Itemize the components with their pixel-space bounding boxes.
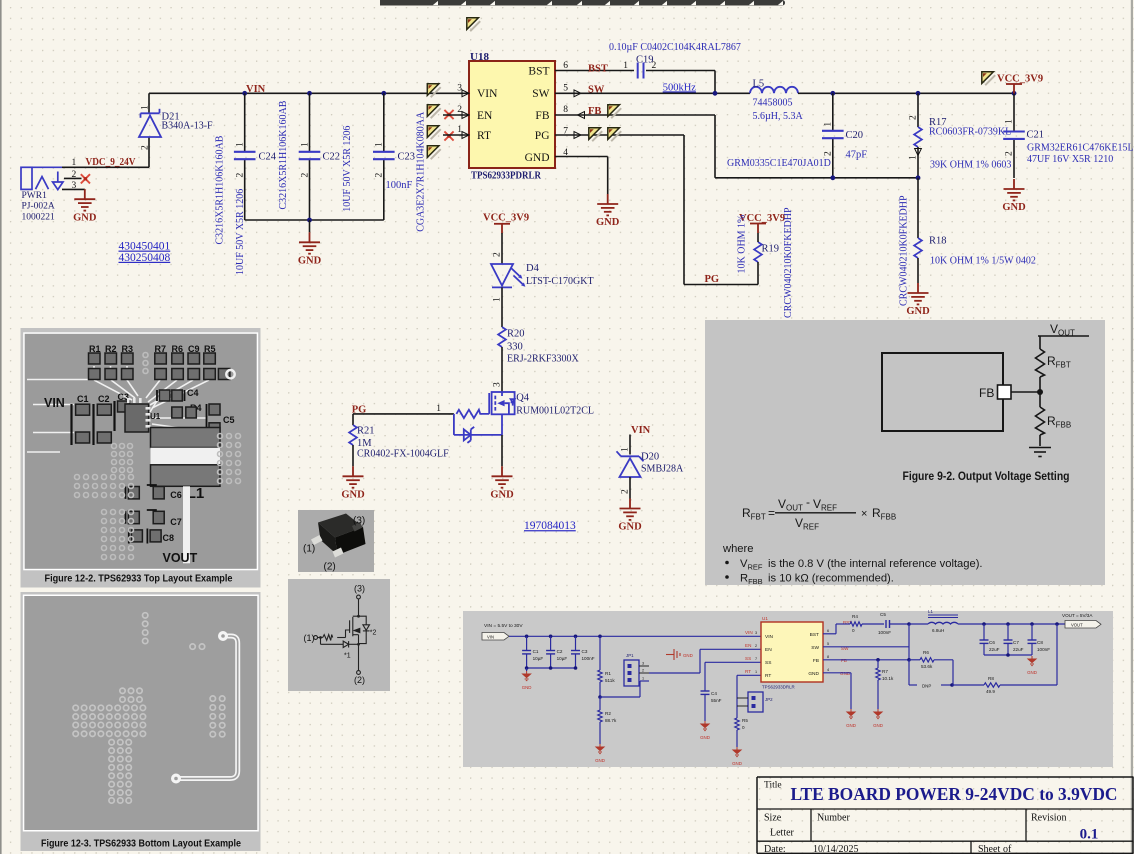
svg-text:C24: C24 bbox=[259, 151, 277, 162]
svg-text:RT: RT bbox=[745, 669, 751, 674]
svg-text:FB: FB bbox=[841, 658, 847, 663]
svg-text:0: 0 bbox=[852, 628, 855, 633]
svg-text:R1: R1 bbox=[605, 671, 611, 676]
svg-text:U1: U1 bbox=[150, 412, 161, 421]
svg-text:L1: L1 bbox=[928, 609, 933, 614]
svg-text:197084013: 197084013 bbox=[524, 520, 576, 532]
svg-text:VIN: VIN bbox=[631, 425, 651, 436]
svg-text:BST: BST bbox=[810, 632, 819, 638]
svg-text:(3): (3) bbox=[353, 516, 365, 527]
svg-text:Size: Size bbox=[764, 812, 782, 823]
svg-text:Number: Number bbox=[817, 812, 850, 823]
svg-text:Revision: Revision bbox=[1031, 812, 1067, 823]
svg-text:C1: C1 bbox=[77, 394, 89, 404]
svg-text:C21: C21 bbox=[1027, 129, 1045, 140]
svg-text:GND: GND bbox=[873, 723, 883, 728]
svg-text:BST: BST bbox=[528, 65, 549, 77]
svg-text:C7: C7 bbox=[170, 517, 182, 527]
svg-text:100nF: 100nF bbox=[878, 630, 891, 635]
svg-text:TPS62933PDRLR: TPS62933PDRLR bbox=[471, 171, 541, 182]
svg-text:Date:: Date: bbox=[764, 844, 786, 854]
svg-text:RC0603FR-0739KL: RC0603FR-0739KL bbox=[929, 127, 1011, 138]
svg-text:2: 2 bbox=[621, 489, 631, 494]
svg-text:RT: RT bbox=[477, 130, 491, 142]
svg-text:(2): (2) bbox=[324, 562, 336, 573]
svg-text:PJ-002A: PJ-002A bbox=[22, 202, 55, 212]
svg-text:VCC_3V9: VCC_3V9 bbox=[997, 74, 1043, 85]
svg-text:GND: GND bbox=[298, 256, 322, 267]
svg-text:2: 2 bbox=[642, 669, 644, 673]
svg-text:2: 2 bbox=[236, 173, 246, 178]
svg-text:TPS62933DRLR: TPS62933DRLR bbox=[762, 685, 795, 690]
svg-text:JP1: JP1 bbox=[626, 653, 634, 658]
svg-text:L5: L5 bbox=[753, 79, 765, 90]
svg-text:2: 2 bbox=[755, 644, 757, 648]
svg-text:*2: *2 bbox=[370, 630, 377, 637]
svg-text:GND: GND bbox=[1002, 202, 1026, 213]
svg-text:22uF: 22uF bbox=[989, 647, 1000, 652]
svg-text:GND: GND bbox=[1027, 670, 1037, 675]
svg-text:GND: GND bbox=[490, 490, 514, 501]
svg-text:SS: SS bbox=[745, 656, 751, 661]
svg-text:C19: C19 bbox=[636, 55, 654, 66]
svg-text:=: = bbox=[768, 506, 775, 520]
svg-text:Title: Title bbox=[764, 781, 782, 791]
svg-text:GND: GND bbox=[808, 671, 819, 677]
svg-text:PG: PG bbox=[705, 274, 720, 285]
svg-text:BST: BST bbox=[588, 63, 608, 74]
svg-text:6: 6 bbox=[563, 61, 568, 71]
svg-text:GND: GND bbox=[73, 212, 97, 223]
svg-text:VIN: VIN bbox=[765, 634, 774, 640]
svg-text:10UF 50V X5R 1206: 10UF 50V X5R 1206 bbox=[342, 126, 353, 212]
svg-text:VIN: VIN bbox=[487, 634, 494, 639]
svg-text:5: 5 bbox=[563, 84, 568, 94]
svg-text:GND: GND bbox=[341, 490, 365, 501]
svg-text:SMBJ28A: SMBJ28A bbox=[641, 463, 684, 474]
svg-text:GND: GND bbox=[595, 758, 605, 763]
svg-text:CRCW040210K0FKEDHP: CRCW040210K0FKEDHP bbox=[783, 207, 794, 318]
svg-text:2: 2 bbox=[72, 170, 77, 180]
svg-text:55nF: 55nF bbox=[711, 698, 722, 703]
svg-text:GND: GND bbox=[683, 653, 693, 658]
svg-text:0: 0 bbox=[742, 725, 745, 730]
svg-text:C22: C22 bbox=[323, 151, 341, 162]
svg-text:Letter: Letter bbox=[770, 828, 795, 839]
svg-text:3: 3 bbox=[493, 382, 503, 387]
svg-text:2: 2 bbox=[375, 173, 385, 178]
svg-text:3: 3 bbox=[72, 181, 77, 191]
svg-text:430250408: 430250408 bbox=[119, 252, 171, 264]
svg-text:FB: FB bbox=[588, 106, 601, 117]
svg-text:RT: RT bbox=[765, 673, 771, 679]
svg-text:330: 330 bbox=[507, 342, 523, 353]
svg-text:VCC_3V9: VCC_3V9 bbox=[483, 213, 529, 224]
svg-text:R21: R21 bbox=[357, 425, 375, 436]
svg-text:88.7k: 88.7k bbox=[605, 718, 617, 723]
svg-text:Figure 12-3. TPS62933 Bottom L: Figure 12-3. TPS62933 Bottom Layout Exam… bbox=[41, 839, 241, 850]
svg-text:VOUT: VOUT bbox=[1071, 622, 1083, 627]
svg-text:1000221: 1000221 bbox=[22, 212, 56, 222]
svg-text:VOUT = 5V/3A: VOUT = 5V/3A bbox=[1062, 613, 1093, 618]
svg-text:VOUT: VOUT bbox=[163, 551, 198, 565]
svg-text:R19: R19 bbox=[762, 243, 780, 254]
svg-text:×: × bbox=[861, 508, 867, 520]
svg-text:GND: GND bbox=[840, 671, 851, 676]
svg-text:1: 1 bbox=[72, 158, 77, 168]
svg-text:47pF: 47pF bbox=[846, 149, 868, 160]
svg-text:Figure 9-2. Output Voltage Set: Figure 9-2. Output Voltage Setting bbox=[903, 469, 1070, 483]
svg-text:D20: D20 bbox=[641, 451, 659, 462]
svg-text:1: 1 bbox=[642, 677, 644, 681]
svg-text:Sheet: Sheet bbox=[978, 844, 1000, 854]
svg-text:7: 7 bbox=[755, 657, 757, 661]
svg-text:R5: R5 bbox=[742, 718, 748, 723]
svg-text:C20: C20 bbox=[846, 130, 864, 141]
svg-text:Q4: Q4 bbox=[516, 392, 530, 403]
svg-text:where: where bbox=[722, 543, 753, 555]
svg-text:-: - bbox=[806, 495, 810, 509]
svg-text:430450401: 430450401 bbox=[119, 241, 171, 253]
svg-text:GRM32ER61C476KE15L: GRM32ER61C476KE15L bbox=[1027, 143, 1134, 154]
svg-text:100nF: 100nF bbox=[386, 180, 413, 191]
svg-text:R20: R20 bbox=[507, 328, 525, 339]
svg-text:EN: EN bbox=[745, 643, 751, 648]
svg-text:is 10 kΩ (recommended).: is 10 kΩ (recommended). bbox=[768, 573, 894, 585]
svg-text:2: 2 bbox=[824, 151, 834, 156]
svg-text:(1): (1) bbox=[304, 633, 315, 643]
svg-text:1: 1 bbox=[909, 155, 919, 160]
svg-text:R4: R4 bbox=[852, 614, 858, 619]
svg-text:CGA3E2X7R1H104K080AA: CGA3E2X7R1H104K080AA bbox=[415, 111, 426, 232]
svg-text:C3216X5R1H106K160AB: C3216X5R1H106K160AB bbox=[278, 100, 289, 209]
svg-text:U1: U1 bbox=[762, 616, 768, 621]
svg-text:LTE BOARD POWER 9-24VDC to 3.9: LTE BOARD POWER 9-24VDC to 3.9VDC bbox=[791, 784, 1118, 804]
svg-text:74458005: 74458005 bbox=[753, 98, 793, 109]
svg-text:GND: GND bbox=[522, 685, 532, 690]
svg-text:GND: GND bbox=[525, 152, 550, 164]
svg-text:39K OHM 1% 0603: 39K OHM 1% 0603 bbox=[930, 160, 1011, 171]
svg-text:4: 4 bbox=[827, 668, 829, 672]
svg-text:8: 8 bbox=[827, 655, 829, 659]
svg-text:2: 2 bbox=[909, 115, 919, 120]
svg-text:511k: 511k bbox=[605, 678, 615, 683]
svg-text:of: of bbox=[1003, 844, 1012, 854]
svg-text:C6: C6 bbox=[989, 640, 995, 645]
svg-text:100nF: 100nF bbox=[582, 656, 595, 661]
svg-text:LTST-C170GKT: LTST-C170GKT bbox=[526, 276, 594, 287]
svg-text:(2): (2) bbox=[354, 675, 365, 685]
svg-text:R6: R6 bbox=[923, 650, 929, 655]
svg-text:GND: GND bbox=[596, 217, 620, 228]
svg-text:100nF: 100nF bbox=[1037, 647, 1050, 652]
svg-text:*1: *1 bbox=[344, 653, 351, 660]
svg-text:VIN: VIN bbox=[44, 396, 65, 410]
svg-text:VIN: VIN bbox=[246, 84, 266, 95]
svg-text:1M: 1M bbox=[357, 438, 372, 449]
svg-text:is the 0.8 V (the internal ref: is the 0.8 V (the internal reference vol… bbox=[768, 558, 983, 570]
svg-text:53.6k: 53.6k bbox=[921, 664, 933, 669]
svg-text:C6: C6 bbox=[170, 490, 182, 500]
svg-text:R8: R8 bbox=[988, 676, 994, 681]
svg-text:Figure 12-2. TPS62933 Top Layo: Figure 12-2. TPS62933 Top Layout Example bbox=[45, 574, 233, 585]
svg-text:10UF 50V X5R 1206: 10UF 50V X5R 1206 bbox=[235, 189, 246, 275]
svg-text:5: 5 bbox=[827, 642, 829, 646]
svg-text:C23: C23 bbox=[398, 151, 416, 162]
svg-text:10µF: 10µF bbox=[533, 656, 544, 661]
svg-text:R2: R2 bbox=[605, 711, 611, 716]
svg-text:C5: C5 bbox=[880, 612, 886, 617]
svg-text:JP2: JP2 bbox=[765, 697, 773, 702]
svg-text:GND: GND bbox=[906, 306, 930, 317]
svg-text:GND: GND bbox=[846, 723, 856, 728]
svg-text:SW: SW bbox=[811, 645, 819, 651]
svg-text:2: 2 bbox=[141, 145, 151, 150]
svg-text:(1): (1) bbox=[303, 544, 315, 555]
svg-text:D4: D4 bbox=[526, 263, 540, 274]
svg-text:47UF 16V X5R 1210: 47UF 16V X5R 1210 bbox=[1027, 154, 1113, 165]
svg-text:GND: GND bbox=[732, 761, 742, 766]
svg-text:1: 1 bbox=[300, 142, 310, 147]
svg-text:CRCW040210K0FKEDHP: CRCW040210K0FKEDHP bbox=[899, 195, 910, 306]
svg-text:5.6µH, 5.3A: 5.6µH, 5.3A bbox=[753, 111, 804, 122]
svg-text:10K OHM 1%: 10K OHM 1% bbox=[737, 215, 748, 274]
svg-text:GND: GND bbox=[700, 735, 710, 740]
svg-text:2: 2 bbox=[493, 252, 503, 257]
svg-text:SW: SW bbox=[588, 84, 605, 95]
svg-text:(3): (3) bbox=[354, 584, 365, 594]
svg-text:500kHz: 500kHz bbox=[663, 82, 697, 93]
svg-text:C4: C4 bbox=[711, 691, 717, 696]
svg-text:CR0402-FX-1004GLF: CR0402-FX-1004GLF bbox=[357, 449, 449, 460]
svg-text:RUM001L02T2CL: RUM001L02T2CL bbox=[516, 406, 594, 417]
svg-text:10.1k: 10.1k bbox=[882, 676, 894, 681]
svg-text:PWR1: PWR1 bbox=[22, 191, 48, 201]
svg-text:SW: SW bbox=[532, 88, 549, 100]
svg-text:C8: C8 bbox=[1037, 640, 1043, 645]
svg-text:GRM0335C1E470JA01D: GRM0335C1E470JA01D bbox=[727, 158, 831, 169]
svg-text:10/14/2025: 10/14/2025 bbox=[813, 844, 859, 854]
svg-text:49.9: 49.9 bbox=[986, 689, 995, 694]
svg-text:6: 6 bbox=[827, 629, 829, 633]
svg-text:1: 1 bbox=[755, 670, 757, 674]
svg-text:1: 1 bbox=[375, 142, 385, 147]
svg-text:EN: EN bbox=[477, 110, 493, 122]
svg-text:VIN = 5.5V to 30V: VIN = 5.5V to 30V bbox=[484, 623, 523, 629]
svg-text:GND: GND bbox=[618, 522, 642, 533]
svg-text:VIN: VIN bbox=[745, 630, 753, 635]
svg-text:10K OHM 1% 1/5W 0402: 10K OHM 1% 1/5W 0402 bbox=[930, 256, 1036, 267]
svg-text:C5: C5 bbox=[223, 415, 235, 425]
svg-text:10µF: 10µF bbox=[557, 656, 568, 661]
svg-text:1: 1 bbox=[824, 122, 834, 127]
svg-text:ERJ-2RKF3300X: ERJ-2RKF3300X bbox=[507, 353, 579, 364]
svg-text:6.8uH: 6.8uH bbox=[932, 628, 944, 633]
svg-text:1: 1 bbox=[623, 61, 628, 71]
svg-text:FB: FB bbox=[979, 386, 994, 400]
svg-text:3: 3 bbox=[642, 662, 644, 666]
svg-text:FB: FB bbox=[535, 110, 549, 122]
svg-text:SS: SS bbox=[765, 660, 771, 666]
svg-text:3: 3 bbox=[755, 631, 757, 635]
svg-text:C7: C7 bbox=[1013, 640, 1019, 645]
svg-text:C3216X5R1H106K160AB: C3216X5R1H106K160AB bbox=[215, 135, 226, 244]
svg-text:0.1: 0.1 bbox=[1080, 827, 1099, 843]
svg-text:C2: C2 bbox=[98, 394, 110, 404]
svg-text:C1: C1 bbox=[533, 649, 539, 654]
svg-text:1: 1 bbox=[236, 142, 246, 147]
svg-text:C4: C4 bbox=[187, 388, 199, 398]
svg-text:U18: U18 bbox=[470, 51, 489, 63]
svg-text:VIN: VIN bbox=[477, 88, 498, 100]
svg-text:EN: EN bbox=[765, 647, 772, 653]
svg-text:1: 1 bbox=[436, 404, 441, 414]
svg-text:C2: C2 bbox=[557, 649, 563, 654]
svg-text:0.10µF C0402C104K4RAL7867: 0.10µF C0402C104K4RAL7867 bbox=[609, 42, 741, 53]
svg-text:8: 8 bbox=[563, 105, 568, 115]
svg-text:R7: R7 bbox=[882, 669, 888, 674]
svg-text:PG: PG bbox=[535, 130, 550, 142]
svg-text:1: 1 bbox=[493, 297, 503, 302]
svg-text:DNP: DNP bbox=[922, 684, 931, 689]
svg-text:2: 2 bbox=[300, 173, 310, 178]
svg-text:C8: C8 bbox=[163, 533, 175, 543]
svg-text:R18: R18 bbox=[929, 235, 947, 246]
svg-text:1: 1 bbox=[621, 447, 631, 452]
svg-text:1: 1 bbox=[1005, 119, 1015, 124]
svg-text:FB: FB bbox=[813, 658, 819, 664]
svg-text:1: 1 bbox=[141, 105, 151, 110]
svg-text:22uF: 22uF bbox=[1013, 647, 1024, 652]
svg-text:C3: C3 bbox=[582, 649, 588, 654]
svg-text:VDC_9_24V: VDC_9_24V bbox=[86, 156, 136, 168]
svg-text:2: 2 bbox=[1005, 151, 1015, 156]
svg-text:B340A-13-F: B340A-13-F bbox=[162, 121, 214, 132]
